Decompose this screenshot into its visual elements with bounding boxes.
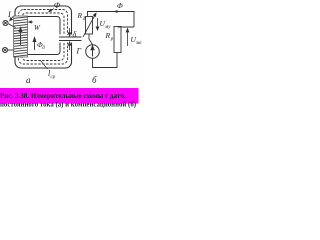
svg-text:Φ: Φ bbox=[117, 1, 123, 10]
terminal X1 top bbox=[3, 20, 8, 25]
flux dashed line inner (mean line l_cp) bbox=[22, 13, 64, 61]
svg-text:R: R bbox=[105, 31, 111, 40]
core inner outline bbox=[26, 17, 61, 55]
terminal X2 bottom bbox=[2, 47, 7, 52]
svg-text:мв: мв bbox=[135, 41, 142, 46]
svg-text:Φ: Φ bbox=[54, 1, 60, 10]
svg-text:постоянного тока (а) и компенс: постоянного тока (а) и компенсационной (… bbox=[0, 101, 137, 109]
arrow for Phi bbox=[49, 9, 54, 12]
air gap blank in right leg bbox=[57, 35, 73, 43]
U_mu arrow down bbox=[96, 18, 99, 30]
rheostat diagonal arrow bbox=[83, 13, 96, 37]
jog wire to resistor Rp bbox=[118, 26, 135, 28]
resistor Rp box bbox=[114, 27, 121, 53]
flux dashed line outer (flux path) bbox=[19, 10, 68, 65]
svg-text:б: б bbox=[92, 75, 97, 85]
top wire bbox=[88, 12, 135, 28]
wire from top terminal to winding bbox=[8, 24, 15, 28]
hall plate lead upper bbox=[59, 36, 82, 38]
wire from bottom terminal to winding bbox=[8, 49, 14, 51]
svg-text:Г: Г bbox=[76, 47, 82, 56]
arrow for W bbox=[29, 21, 33, 23]
svg-text:δ: δ bbox=[73, 30, 77, 39]
U_mv arrow up bbox=[126, 29, 129, 47]
bottom wire bbox=[93, 53, 118, 68]
flux direction arrow on top wire bbox=[114, 10, 118, 13]
wire box to galvanometer bbox=[89, 34, 93, 45]
svg-text:Рис. 3.38. Измерительные схемы: Рис. 3.38. Измерительные схемы с датч. bbox=[0, 92, 126, 100]
svg-text:а: а bbox=[26, 75, 31, 85]
label l_cp with leader line bbox=[40, 60, 48, 69]
svg-text:R: R bbox=[77, 11, 83, 20]
caption magenta highlight bbox=[0, 88, 139, 104]
flux arrow in winding leg bbox=[19, 28, 22, 46]
svg-text:му: му bbox=[104, 25, 111, 30]
background bbox=[0, 0, 143, 109]
gap dimension arrow top bbox=[68, 28, 71, 36]
hall plate lead lower bbox=[59, 40, 82, 42]
core window bbox=[27, 19, 59, 53]
galvanometer circle with arrow bbox=[86, 45, 100, 59]
svg-text:р: р bbox=[110, 37, 114, 42]
current arrow under I bbox=[10, 17, 13, 21]
gap dimension arrow bottom bbox=[68, 42, 71, 50]
winding W hatched block bbox=[14, 16, 28, 57]
svg-text:ср: ср bbox=[51, 75, 56, 80]
core outer outline bbox=[15, 6, 72, 68]
flux arrow Phi_d in window bbox=[33, 38, 36, 51]
variable resistor Rd box bbox=[86, 17, 93, 35]
